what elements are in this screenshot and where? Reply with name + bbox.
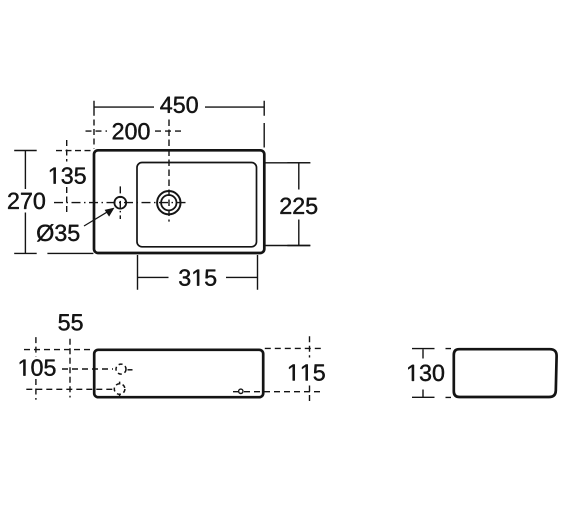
- dimension 315 extension lines: [138, 255, 258, 290]
- bottom reference line from 270 tick to basin corner: [47, 252, 93, 254]
- dimension 225 line: [287, 163, 310, 246]
- dimension 115 line: [309, 336, 311, 404]
- dimension 130 line: [412, 349, 435, 398]
- dimension 130 label: [408, 365, 444, 382]
- drain outer circle: [157, 191, 180, 214]
- tap hole: [114, 197, 126, 209]
- dimension 105 label: [20, 359, 56, 376]
- dimension 105 line: [35, 337, 37, 400]
- dimension 225 label: [280, 198, 317, 215]
- dimension 200 line: [86, 130, 183, 132]
- dimension 450 right extension: [263, 123, 265, 148]
- dimension 450 label: [160, 97, 197, 114]
- vertical centerline through drain: [168, 120, 170, 222]
- top edge extension line right (front view): [265, 347, 321, 349]
- dimension 55 label: [59, 314, 83, 330]
- dimension 450 line: [94, 101, 264, 116]
- fixing hole (front view): [239, 389, 243, 393]
- diameter label Ø35: [37, 224, 79, 241]
- vertical centerline through tap hole: [119, 186, 121, 219]
- dimension 200 label: [113, 123, 150, 140]
- dimension 225 top reference line: [265, 162, 310, 164]
- dimension 270 line: [14, 151, 37, 254]
- overflow level line (front view): [62, 368, 113, 370]
- dimension 115 label: [289, 364, 325, 380]
- dimension 55 line: [69, 339, 71, 398]
- dimension 225 bottom reference line: [265, 245, 310, 247]
- drain inner circle: [161, 195, 176, 210]
- horizontal centerline through tap and drain: [54, 202, 188, 204]
- dimension 270 label: [8, 193, 45, 210]
- overflow hole hidden outline (front view): [116, 364, 133, 374]
- drain hole hidden outline (front view): [114, 382, 125, 397]
- top edge extension line left (front view): [24, 349, 93, 351]
- basin bowl inner outline (plan view): [137, 163, 257, 247]
- drain level line left (front view): [26, 388, 113, 390]
- leader arrow from Ø35 to tap hole: [84, 208, 115, 226]
- dimension 130 extension segments: [446, 349, 452, 398]
- basin outer outline (plan view): [94, 150, 264, 253]
- dimension 315 line: [138, 276, 258, 278]
- fixing level line right (front view): [233, 391, 320, 393]
- top reference line for 135: [56, 150, 92, 152]
- dimension 315 label: [179, 269, 216, 286]
- dimension 135 line: [66, 140, 68, 216]
- front view outline: [94, 350, 263, 397]
- dimension 135 label: [50, 167, 86, 184]
- side view outline: [454, 349, 557, 397]
- dimension 450 left extension: [93, 120, 95, 149]
